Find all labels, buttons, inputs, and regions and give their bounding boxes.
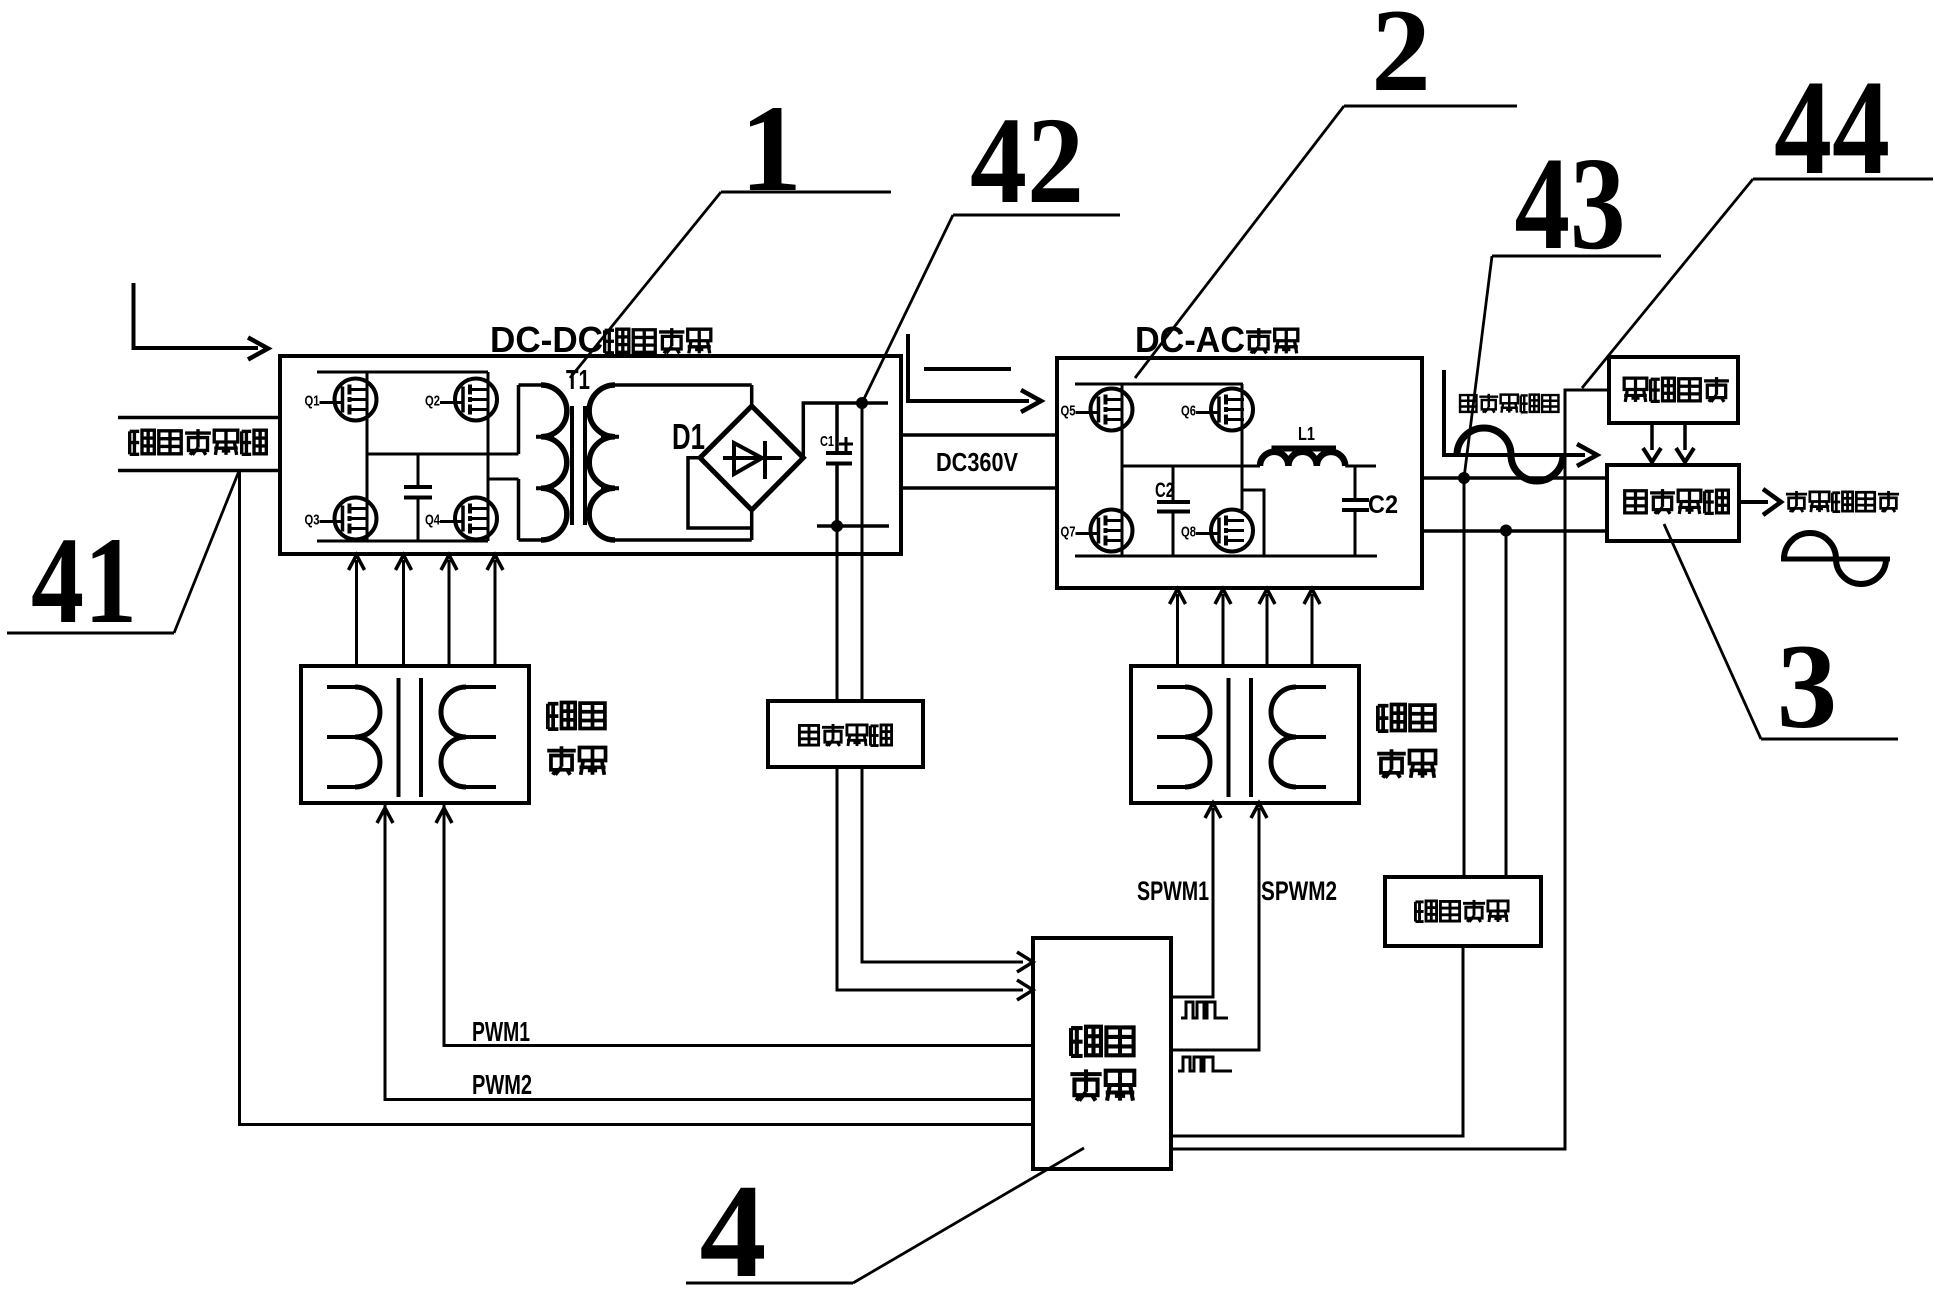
block 母线采样 [768,701,923,767]
node junction dot inverter top [1458,472,1470,484]
label 2 with leader [1135,0,1517,378]
wire - secondary top to bridge top [750,385,754,406]
wire - inverter out top [1422,476,1607,480]
symbol sine wave AC output [1781,533,1890,584]
label 4 with leader [686,1148,1084,1297]
label 隔离驱动 right [1377,704,1435,777]
wire - DC input flow arrow [134,283,269,360]
label PWM2 [472,1069,532,1100]
label D1 [672,416,705,457]
node 直流输入端 input wires [118,418,280,471]
label 母线采样 [799,724,891,746]
block 切换电路 [1607,465,1739,541]
svg-text:Q1: Q1 [305,393,320,410]
wire - bridge1 left leg [366,372,369,541]
block DC-AC inverter outline [1057,358,1422,588]
symbol waveform SPWM1 [1181,1002,1228,1018]
label 1 with leader [570,80,891,378]
node junction dot inverter bottom [1500,525,1512,537]
wire - bridge1 right leg [487,372,490,541]
node junction dot bottom [831,520,843,532]
label 逆变输出端 [1460,394,1558,413]
label 44 with leader [1582,53,1933,388]
label 交流输出端 [1786,491,1899,512]
wire - PWM1 line [436,803,1033,1046]
transistor Q1 [305,379,377,421]
wire - bridge2 top rail [1075,383,1243,386]
svg-text:Q2: Q2 [425,393,440,410]
label 43 with leader [1464,129,1661,478]
label C2 bridge [1155,479,1174,502]
label C2 output [1368,491,1398,519]
block 输出采样 [1385,877,1541,946]
transistor Q3 [305,498,377,540]
wire - gate arrows DCDC [349,555,504,666]
diode bridge D1 diamond [700,406,803,510]
wire - bridge1 bottom rail [317,540,488,543]
wire - mains feed line [1171,390,1609,1149]
svg-text:42: 42 [970,92,1084,229]
svg-text:DC-DC: DC-DC [490,319,603,360]
wire - mains to switch arrows [1643,423,1694,462]
wire - DC360V bus lines [901,435,1057,488]
wire - bridge2 right leg [1241,384,1244,510]
label 隔离驱动 left [547,702,605,774]
wire - inverter out bottom [1422,529,1607,533]
svg-text:Q3: Q3 [305,512,320,529]
wire - gate arrows DCAC [1170,589,1321,666]
svg-text:Q4: Q4 [425,512,440,529]
label 市电输入 [1624,377,1729,402]
wire - bridge positive out [803,403,888,458]
label 输出采样 [1415,900,1508,922]
wire - bridge2 bottom rail [1075,555,1377,558]
label L1 [1298,424,1315,444]
wire - bridge1 lower tap to T1 [488,478,519,481]
wire - bridge bottom corner down [750,510,754,540]
transistor Q5 [1061,389,1133,431]
block 隔离驱动 right [1131,666,1359,803]
wire - bridge2 mid rail [1122,465,1260,468]
label SPWM1 [1137,876,1209,906]
svg-text:C2: C2 [1155,479,1174,502]
label 控制电路 [1070,1027,1134,1101]
svg-text:D1: D1 [672,416,705,457]
svg-text:4: 4 [700,1157,767,1297]
transistor Q4 [425,498,497,540]
wire - bridge2 right tap [1242,490,1264,556]
label 42 with leader [862,92,1120,403]
symbol sine wave inverter output [1457,428,1563,481]
capacitor bridge2 cap C2 [1157,466,1190,556]
capacitor C2 output [1342,466,1369,556]
transistor Q8 [1181,510,1253,552]
svg-text:C2: C2 [1368,491,1398,519]
svg-text:L1: L1 [1298,424,1315,444]
wire - bridge1 mid rail to T1 [367,453,519,456]
wire - SPWM2 line [1171,803,1267,1050]
transistor Q7 [1061,510,1133,552]
label 41 with leader [7,471,239,649]
wire - bus sample to control B [837,767,1033,1000]
node junction dot top [856,397,868,409]
svg-text:DC360V: DC360V [936,447,1019,477]
wire - bridge left corner loop [688,458,752,528]
label DC-AC逆变 [1135,319,1298,360]
wire - SPWM1 line [1171,803,1221,997]
wire - out sample tap bottom [1505,531,1508,878]
transistor Q2 [425,379,497,421]
svg-text:DC-AC: DC-AC [1135,319,1245,360]
label 直流输入端 [130,429,267,455]
wire - DC input sense line down to control [240,471,1034,1125]
label T1 [566,364,590,395]
wire - out sample to control [1171,946,1463,1136]
svg-text:SPWM2: SPWM2 [1261,876,1337,906]
wire - bridge1 top rail [317,371,488,374]
svg-text:Q7: Q7 [1061,524,1076,541]
transformer driver right [1157,678,1326,797]
block 控制电路 [1033,938,1171,1169]
svg-text:Q6: Q6 [1181,403,1196,420]
svg-text:PWM2: PWM2 [472,1069,532,1100]
symbol waveform SPWM2 [1178,1057,1232,1071]
capacitor bridge1 input cap [404,454,432,541]
svg-text:Q5: Q5 [1061,403,1076,420]
svg-text:3: 3 [1777,620,1838,754]
svg-text:PWM1: PWM1 [472,1016,530,1047]
wire - bus sample tap B [836,526,839,701]
svg-text:SPWM1: SPWM1 [1137,876,1209,906]
wire - PWM2 line [377,803,1033,1100]
transformer driver left [327,678,496,797]
transformer T1 [519,385,752,540]
block 隔离驱动 left [301,666,529,803]
label 切换电路 [1625,489,1729,514]
svg-text:2: 2 [1371,0,1431,116]
capacitor C1 [820,403,853,526]
label SPWM2 [1261,876,1337,906]
svg-text:Q8: Q8 [1181,524,1196,541]
wire - AC output arrow [1739,489,1781,515]
wire - C1 bottom bus [817,524,889,528]
svg-text:41: 41 [31,512,137,649]
wire - DC bus flow arrow [908,334,1041,412]
wire - bus sample tap A [861,403,864,701]
transistor Q6 [1181,389,1253,431]
svg-text:1: 1 [740,80,802,217]
block 市电输入 [1609,357,1738,423]
label 3 with leader [1664,524,1898,754]
label DC360V [936,447,1019,477]
wire - out sample tap top [1463,478,1466,877]
label PWM1 [472,1016,530,1047]
block DC-DC isolation boost outline [280,356,901,554]
wire - bridge2 left leg [1121,384,1124,556]
label DC-DC隔离升压 [490,319,711,360]
inductor L1 [1260,449,1376,467]
svg-text:C1: C1 [820,433,834,450]
wire - inverter output flow arrow [1444,370,1597,466]
wire - bus sample to control A [862,767,1033,972]
